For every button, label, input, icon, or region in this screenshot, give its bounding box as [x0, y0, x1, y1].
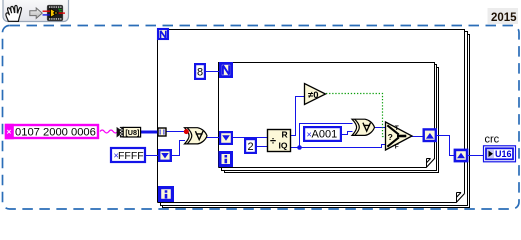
svg-text:R: R: [282, 130, 288, 140]
svg-text:T: T: [395, 125, 399, 132]
svg-text:U16: U16: [495, 149, 512, 159]
svg-text:2015: 2015: [491, 12, 517, 24]
svg-text:2: 2: [248, 141, 254, 153]
svg-text:0107 2000 0006: 0107 2000 0006: [15, 126, 96, 138]
svg-text:[U8]: [U8]: [125, 128, 139, 137]
svg-text:≠0: ≠0: [308, 90, 319, 101]
svg-text:F: F: [395, 144, 399, 151]
svg-text:A001: A001: [312, 129, 338, 141]
svg-text:?: ?: [388, 132, 393, 142]
svg-text:crc: crc: [485, 134, 500, 146]
svg-text:IQ: IQ: [279, 141, 288, 151]
svg-text:×: ×: [7, 128, 12, 137]
svg-text:8: 8: [197, 67, 203, 79]
svg-text:÷: ÷: [270, 136, 276, 148]
svg-text:FFFF: FFFF: [118, 150, 144, 162]
